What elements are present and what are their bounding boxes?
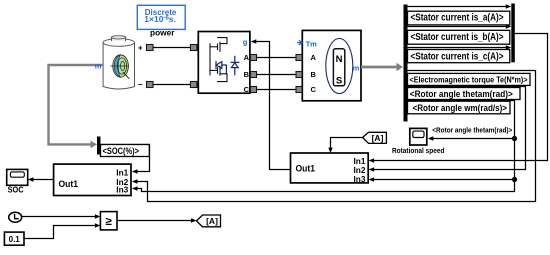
svg-text:−: − [138,80,143,89]
svg-text:[A]: [A] [206,216,218,226]
svg-text:<Stator current is_c(A)>: <Stator current is_c(A)> [411,51,504,62]
motor B port pad [296,72,302,78]
From tag [A] (middle) [363,132,387,143]
wire SOC subsystem to SOC display [28,177,54,181]
wire stator current is_b [408,24,512,28]
wire clock to compare block [22,214,101,218]
svg-text:In1: In1 [116,168,128,178]
svg-text:N: N [336,54,343,65]
SOC bus selector bar [97,137,101,155]
wire stator current is_a [408,4,512,8]
svg-text:g: g [243,38,248,47]
svg-text:Rotational speed: Rotational speed [392,146,445,155]
label box signal thetam [408,88,521,100]
compare block >= [100,212,117,230]
bus wire m to bus selector (gray thick arrow) [361,63,403,71]
bridge A port pad [251,55,257,61]
wire 0.1 to compare block [24,223,100,238]
universal bridge U1 box [198,32,250,94]
SOC subsystem Out1 box [54,164,131,195]
motor PMSM M1 box [302,30,361,100]
label box signal wm [408,101,511,114]
svg-text:≥: ≥ [106,216,113,228]
bridge U1 icon arrow [216,61,226,74]
label box SOC(%) [101,145,150,158]
svg-text:Out1: Out1 [59,179,79,189]
wire battery- to bridge- [153,84,190,86]
svg-text:+: + [138,44,143,53]
svg-text:A: A [244,53,250,62]
svg-text:In3: In3 [354,174,366,184]
motor A port pad [296,55,302,61]
wire From[A] to controller top [328,138,362,154]
svg-text:power: power [150,27,175,37]
bridge U1 icon mosfets [210,38,227,82]
junction dot wm/display [512,136,517,141]
svg-text:S: S [336,76,342,87]
battery - port pad [147,82,154,88]
bridge - port pad [190,82,197,88]
SOC display block [7,169,28,185]
wire SOC(%) to SOC-subsystem In1 [101,145,150,174]
wire rotor angle wm trunk [132,101,515,192]
wire wm branch to rotational speed display [428,136,515,140]
label box signal is_c [408,50,510,63]
motor icon magnet rect [333,49,344,86]
svg-text:m: m [95,62,102,71]
wire mux output to controller In1 [369,34,548,163]
wire rotor angle thetam to controller In2 [369,87,526,172]
battery B1 logo [111,55,130,79]
svg-text:SOC: SOC [8,184,24,194]
svg-text:<Stator current is_a(A)>: <Stator current is_a(A)> [411,13,504,24]
label box signal is_a [408,11,510,25]
svg-text:<Rotor angle thetam(rad)>: <Rotor angle thetam(rad)> [410,89,513,100]
bridge C port pad [251,87,257,93]
wire gate: controller Out1 to bridge g [251,39,291,169]
wire wm branch to controller In3 [369,177,515,181]
bridge + port pad [190,45,197,51]
clock block [9,212,22,222]
svg-text:m: m [353,63,360,72]
rotational speed display block [410,128,427,145]
bus selector bar (left) [404,5,408,122]
svg-text:<Rotor angle thetam(rad)>: <Rotor angle thetam(rad)> [432,125,512,134]
motor Tm unconnected input arrow [297,40,302,45]
motor icon ellipse [326,39,353,94]
svg-text:0.1: 0.1 [9,235,21,244]
wire phase A bridge to motor [257,57,297,59]
gray bus wire battery m to SOC selector [49,65,104,148]
bridge B port pad [251,72,257,78]
wire phase B bridge to motor [257,74,297,76]
mux bar (right) [511,4,515,63]
label box signal Te [408,73,531,85]
svg-text:A: A [311,53,317,62]
svg-text:<SOC(%)>: <SOC(%)> [103,146,140,157]
powergui block U_power [137,5,185,29]
battery B1 body [103,36,134,89]
wire electromagnetic torque Te to SOC-subsystem In2 [132,71,536,202]
svg-text:<Electromagnetic torque Te(N*m: <Electromagnetic torque Te(N*m)> [410,76,528,85]
wire stator current is_c [408,45,512,49]
wire compare to Goto [A] [117,218,197,222]
svg-text:B: B [311,70,317,79]
bridge U1 icon diode [231,56,240,75]
svg-text:In3: In3 [116,184,128,194]
svg-text:B: B [244,70,250,79]
junction dot wm/controller In3 [512,177,517,182]
label box signal is_b [408,30,510,44]
constant block 0.1 [4,232,24,245]
motor C port pad [296,87,302,93]
svg-text:C: C [311,85,317,94]
svg-text:Out1: Out1 [296,164,316,174]
svg-text:1×10-6s.: 1×10-6s. [144,14,176,24]
svg-text:Tm: Tm [306,39,318,48]
svg-text:<Stator current is_b(A)>: <Stator current is_b(A)> [411,32,504,43]
svg-text:C: C [244,85,250,94]
svg-text:[A]: [A] [372,133,384,143]
svg-text:<Rotor angle wm(rad/s)>: <Rotor angle wm(rad/s)> [413,103,508,114]
Goto tag [A] (bottom) [197,215,221,227]
controller subsystem Out1 (middle) box [291,153,369,183]
wire battery+ to bridge+ [153,47,190,49]
wire phase C bridge to motor [257,89,297,91]
battery + port pad [147,45,154,51]
